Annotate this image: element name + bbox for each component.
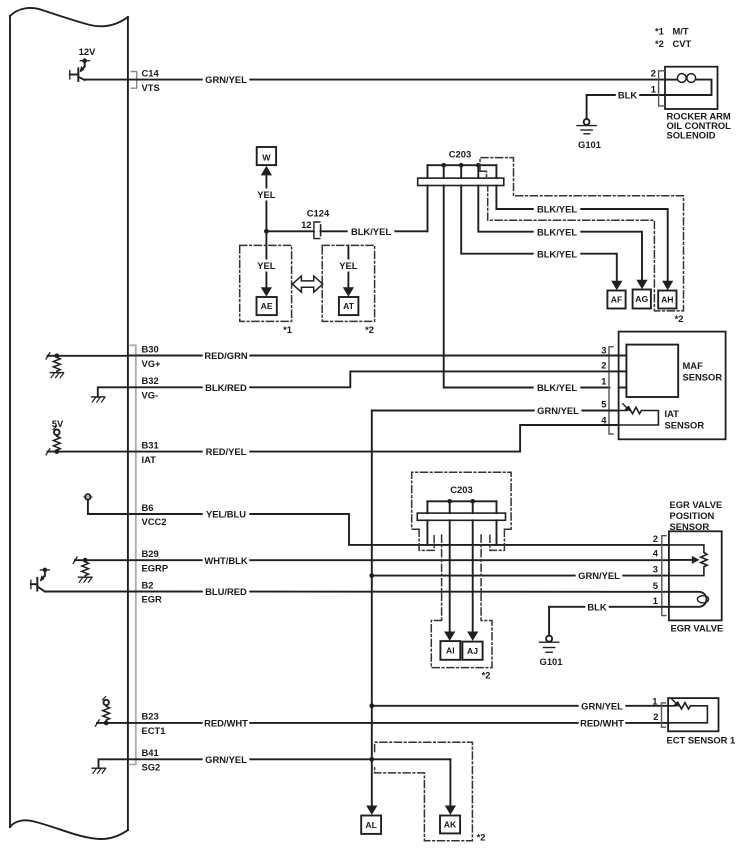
VG- ground stub <box>92 387 128 402</box>
label GRN/YEL (B41 row) <box>203 754 250 765</box>
wire BLK/YEL row to AF <box>461 186 617 286</box>
svg-text:AJ: AJ <box>467 646 478 656</box>
svg-text:BLU/RED: BLU/RED <box>205 586 247 597</box>
junction node GRN/YEL to EGR pin3 <box>369 573 374 578</box>
box AE <box>257 297 277 315</box>
wire BLK row solenoid pin1 <box>587 94 665 96</box>
position sensor potentiometer <box>669 545 707 576</box>
svg-text:*2: *2 <box>365 324 374 335</box>
ECT sensor 1 box <box>668 698 718 731</box>
svg-text:SENSOR: SENSOR <box>683 372 723 383</box>
box AG <box>633 290 651 309</box>
dash-dot boundary around lower C203 <box>412 472 511 667</box>
box AI <box>440 641 460 660</box>
wire BLK/YEL row to AH <box>496 186 667 286</box>
wire RED/YEL row B31 stepping up to MAF pin4 <box>48 451 128 453</box>
trunk wire GRN/YEL vertical <box>371 411 373 811</box>
solenoid coil <box>677 74 686 83</box>
svg-text:VCC2: VCC2 <box>142 516 167 527</box>
svg-text:GRN/YEL: GRN/YEL <box>581 700 623 711</box>
svg-text:BLK: BLK <box>618 90 637 101</box>
wire AE branch <box>261 231 272 296</box>
box W (MIL) <box>257 147 276 165</box>
svg-text:C14: C14 <box>142 67 160 78</box>
svg-text:RED/WHT: RED/WHT <box>204 718 248 729</box>
svg-text:1: 1 <box>651 83 656 94</box>
svg-text:BLK/YEL: BLK/YEL <box>537 204 577 215</box>
svg-text:SOLENOID: SOLENOID <box>667 129 716 140</box>
svg-text:AL: AL <box>365 820 376 830</box>
ground G101 (top) <box>577 95 596 134</box>
EGR pin bracket <box>662 536 666 616</box>
svg-text:AE: AE <box>261 301 273 311</box>
label BLK (solenoid) <box>616 90 639 101</box>
12V power node <box>82 58 87 63</box>
svg-text:G101: G101 <box>540 656 563 667</box>
svg-text:SG2: SG2 <box>142 762 161 773</box>
transistor Q1 (VTS driver inside ECM) <box>70 61 90 81</box>
solenoid pin bracket <box>659 71 665 106</box>
svg-text:5: 5 <box>601 398 606 409</box>
svg-text:EGR VALVE: EGR VALVE <box>670 499 723 510</box>
svg-text:WHT/BLK: WHT/BLK <box>204 555 247 566</box>
svg-text:CVT: CVT <box>673 38 692 49</box>
dash-dot harness boundary around CVT pin and AH <box>480 158 684 311</box>
thermistor <box>668 703 707 723</box>
wire GRN/YEL row B41 <box>128 758 451 760</box>
svg-text:GRN/YEL: GRN/YEL <box>205 754 247 765</box>
MAF sensor inner box <box>626 345 678 397</box>
B23 pull-up resistor <box>95 697 109 727</box>
EGR valve coil loop <box>669 592 707 607</box>
svg-text:RED/YEL: RED/YEL <box>206 446 247 457</box>
label GRN/YEL (ECT pin1) <box>579 700 626 711</box>
svg-text:AK: AK <box>444 820 457 830</box>
svg-text:IAT: IAT <box>142 454 157 465</box>
svg-text:SENSOR: SENSOR <box>665 420 705 431</box>
svg-text:*2: *2 <box>655 38 664 49</box>
IAT sensor thermistor <box>619 407 659 425</box>
wire RED/WHT row B23 to ECT pin2 <box>97 722 128 724</box>
svg-text:B31: B31 <box>142 439 159 450</box>
label GRN/YEL (MAF pin5) <box>535 405 582 416</box>
ground G101 (lower) <box>540 607 559 653</box>
label RED/GRN (B30 row) <box>203 350 250 361</box>
wire BLK/YEL row to AG <box>478 186 642 285</box>
SG2 ground stub <box>92 759 128 773</box>
svg-text:GRN/YEL: GRN/YEL <box>578 570 620 581</box>
label BLK (EGR pin1) <box>585 601 608 612</box>
svg-text:C203: C203 <box>449 148 471 159</box>
svg-text:POSITION: POSITION <box>670 510 715 521</box>
svg-text:12: 12 <box>301 219 311 230</box>
svg-text:*2: *2 <box>675 313 684 324</box>
svg-text:GRN/YEL: GRN/YEL <box>205 74 247 85</box>
svg-text:B2: B2 <box>142 579 154 590</box>
wire C203 pin to AI <box>449 520 451 636</box>
wire BLU/RED row B2 to EGR pin5 <box>45 591 128 593</box>
svg-text:AH: AH <box>661 295 673 305</box>
svg-text:BLK/YEL: BLK/YEL <box>351 226 391 237</box>
wire GRN/YEL row to EGR pin3 <box>372 575 669 577</box>
svg-text:YEL: YEL <box>339 260 358 271</box>
transistor Q2 (EGR driver inside ECM) <box>31 568 50 592</box>
svg-text:5V: 5V <box>52 418 64 429</box>
svg-text:B6: B6 <box>142 502 154 513</box>
svg-text:4: 4 <box>601 414 607 425</box>
dashed enclosure *1 (M/T) <box>240 245 292 321</box>
svg-text:SENSOR: SENSOR <box>670 521 710 532</box>
rocker arm oil control solenoid box U <box>665 67 718 109</box>
M/T-CVT double arrow <box>292 276 322 292</box>
svg-text:EGR: EGR <box>142 594 163 605</box>
label BLK/YEL (MAF pin1) <box>534 382 581 393</box>
EGR valve position sensor / EGR valve box <box>669 531 722 620</box>
svg-text:GRN/YEL: GRN/YEL <box>537 405 579 416</box>
MAF sensor assembly box <box>619 332 726 440</box>
connector C14 bracket <box>131 72 137 89</box>
svg-text:4: 4 <box>653 548 659 559</box>
label BLK/YEL (C124 row) <box>348 226 395 237</box>
svg-text:ECT SENSOR 1: ECT SENSOR 1 <box>667 735 736 746</box>
svg-text:*1: *1 <box>283 324 292 335</box>
wire BLK/YEL from C124 to C203 <box>321 230 428 232</box>
svg-text:M/T: M/T <box>673 26 689 37</box>
wire WHT/BLK row B29 to EGR pin4 <box>75 559 128 561</box>
label GRN/YEL (EGR pin3) <box>576 570 623 581</box>
label BLK/YEL (AH row) <box>534 204 581 215</box>
svg-text:AG: AG <box>635 294 648 304</box>
ECM pin bracket (gray, B30..SG2) <box>130 345 136 764</box>
svg-text:3: 3 <box>601 344 606 355</box>
svg-text:1: 1 <box>653 595 658 606</box>
svg-text:RED/GRN: RED/GRN <box>204 350 247 361</box>
svg-text:C124: C124 <box>307 208 330 219</box>
svg-text:W: W <box>262 152 271 162</box>
box AF <box>607 291 625 309</box>
5V pull-up at B31 <box>46 426 60 455</box>
B30 pull-down resistor to ground <box>46 353 64 378</box>
ECM/PCM body outline (torn-edge box) <box>10 8 128 839</box>
label RED/WHT (ECT pin2) <box>579 717 626 728</box>
connector C203 (upper) <box>418 163 504 186</box>
svg-text:BLK/YEL: BLK/YEL <box>537 248 577 259</box>
B29 pull-down resistor <box>73 557 92 582</box>
label WHT/BLK (B29 row) <box>203 555 250 566</box>
wire BLK row to EGR pin1 <box>549 606 669 608</box>
svg-text:*1: *1 <box>655 26 664 37</box>
wire VTS row <box>85 79 665 81</box>
wire GRN/YEL row to ECT pin1 <box>372 705 668 707</box>
svg-text:3: 3 <box>653 563 658 574</box>
label BLK/YEL (AF row) <box>534 248 581 259</box>
svg-text:RED/WHT: RED/WHT <box>580 718 624 729</box>
wire BLK/RED row B32 stepping up to MAF pin2 <box>128 371 619 387</box>
svg-text:2: 2 <box>651 68 656 79</box>
label YEL (AE branch) <box>254 260 279 272</box>
svg-text:AT: AT <box>343 301 355 311</box>
svg-text:ECT1: ECT1 <box>142 725 166 736</box>
junction node B41/trunk <box>369 757 374 762</box>
wire W branch vertical <box>261 166 272 232</box>
svg-text:C203: C203 <box>450 484 472 495</box>
svg-text:*2: *2 <box>482 669 491 680</box>
svg-text:VG+: VG+ <box>142 358 162 369</box>
label GRN/YEL (VTS row) <box>203 74 250 85</box>
ECT pin bracket <box>662 703 666 727</box>
svg-text:YEL: YEL <box>257 189 276 200</box>
label RED/YEL (B31 row) <box>203 446 250 457</box>
B6 VCC2 5V ref stub <box>83 494 92 514</box>
box AK <box>440 816 460 834</box>
label YEL (AT branch) <box>336 260 361 272</box>
label YEL (W branch) <box>254 189 279 201</box>
svg-text:2: 2 <box>653 711 658 722</box>
svg-text:BLK: BLK <box>587 601 606 612</box>
dash-dot boundary around AK (*2) <box>375 742 473 841</box>
label BLK/RED (B32 row) <box>203 382 250 393</box>
svg-text:AF: AF <box>611 295 622 305</box>
wire C203 pin to C124 row <box>427 186 429 232</box>
svg-text:5: 5 <box>653 580 658 591</box>
box AT <box>339 297 359 315</box>
svg-text:2: 2 <box>653 533 658 544</box>
svg-text:2: 2 <box>601 359 606 370</box>
svg-text:G101: G101 <box>578 139 601 150</box>
MAF pin bracket <box>609 347 613 434</box>
svg-text:B41: B41 <box>142 747 159 758</box>
svg-text:YEL/BLU: YEL/BLU <box>206 509 246 520</box>
box AH <box>658 291 676 309</box>
box AL <box>361 816 381 834</box>
svg-text:BLK/RED: BLK/RED <box>205 382 247 393</box>
svg-text:B23: B23 <box>142 711 159 722</box>
label YEL/BLU (B6 row) <box>203 509 250 520</box>
wire AT branch <box>343 245 354 296</box>
svg-text:B30: B30 <box>142 344 159 355</box>
box AJ <box>462 642 482 660</box>
svg-text:BLK/YEL: BLK/YEL <box>537 382 577 393</box>
wire GRN/YEL row MAF pin5 from trunk <box>372 410 619 412</box>
label RED/WHT (B23 row) <box>203 717 250 728</box>
svg-text:YEL: YEL <box>257 260 276 271</box>
svg-text:12V: 12V <box>79 46 96 57</box>
label BLU/RED (B2 row) <box>203 586 250 597</box>
connector C203 (lower) <box>417 499 505 545</box>
junction node GRN/YEL to ECT pin1 <box>369 703 374 708</box>
wire C203 pin to AJ <box>472 520 474 636</box>
svg-text:VG-: VG- <box>142 390 159 401</box>
svg-text:B29: B29 <box>142 548 159 559</box>
junction node <box>264 229 269 234</box>
svg-text:*2: *2 <box>477 832 486 843</box>
svg-text:EGRP: EGRP <box>142 562 169 573</box>
label BLK/YEL (AG row) <box>534 226 581 237</box>
connector C124 pin 12 <box>314 222 321 239</box>
wire C203 pin down to MAF pin1 row <box>444 186 610 388</box>
svg-text:MAF: MAF <box>683 360 704 371</box>
dashed enclosure *2 (CVT) <box>322 245 374 321</box>
svg-text:IAT: IAT <box>665 408 680 419</box>
svg-text:1: 1 <box>652 695 657 706</box>
svg-text:B32: B32 <box>142 375 159 386</box>
wire RED/GRN row B30 to MAF pin3 <box>48 355 128 357</box>
wire YEL/BLU row B6 stepping down to EGR pin2 row <box>88 513 128 515</box>
svg-text:EGR VALVE: EGR VALVE <box>671 623 724 634</box>
wire to AK <box>449 759 451 810</box>
svg-text:AI: AI <box>446 646 455 656</box>
svg-text:BLK/YEL: BLK/YEL <box>537 226 577 237</box>
svg-text:VTS: VTS <box>142 82 160 93</box>
wire to C124 <box>266 230 314 232</box>
svg-text:1: 1 <box>601 375 606 386</box>
